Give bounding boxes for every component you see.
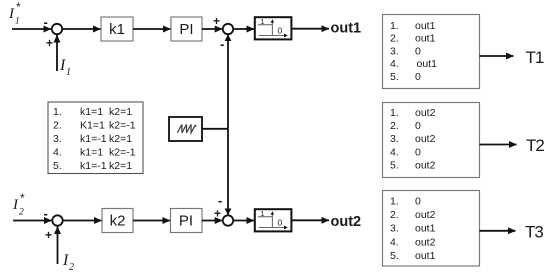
table box T1 — [383, 15, 480, 89]
svg-text:PI: PI — [179, 213, 193, 230]
input label I2 — [62, 252, 74, 273]
wire S1 to k1 — [63, 28, 101, 30]
summing junction S4 — [223, 215, 233, 225]
svg-text:T1: T1 — [526, 48, 544, 67]
svg-text:out1: out1 — [331, 21, 362, 37]
wire CMP1 to out1 — [291, 28, 329, 30]
svg-text:4.: 4. — [390, 58, 399, 70]
summing junction S1 — [52, 24, 62, 34]
wire PI2 to S4 — [202, 220, 222, 222]
gain block k1 — [101, 17, 133, 41]
comparator block CMP1 — [255, 17, 292, 39]
svg-text:I: I — [12, 197, 19, 213]
svg-text:T3: T3 — [525, 223, 543, 242]
node T2 — [526, 136, 544, 155]
svg-text:+: + — [214, 207, 221, 221]
wire carrier to vertical bus — [202, 128, 228, 130]
svg-text:2.: 2. — [53, 119, 62, 131]
svg-text:k1=-1: k1=-1 — [80, 160, 107, 172]
svg-text:-: - — [44, 206, 48, 221]
feedback arrow I2 into S3 — [57, 227, 59, 265]
svg-text:out2: out2 — [415, 133, 436, 145]
svg-text:out1: out1 — [415, 20, 436, 32]
svg-text:1: 1 — [66, 67, 71, 78]
svg-text:0: 0 — [415, 196, 421, 208]
svg-text:1.: 1. — [390, 196, 399, 208]
summing junction S3 — [52, 215, 62, 225]
wire PI1 to S2 — [202, 28, 222, 30]
svg-text:4.: 4. — [390, 146, 399, 158]
svg-text:2.: 2. — [390, 120, 399, 132]
svg-text:k2: k2 — [110, 213, 126, 230]
svg-text:3.: 3. — [53, 133, 62, 145]
svg-text:1.: 1. — [53, 106, 62, 118]
node out1 — [331, 21, 362, 37]
svg-text:k2=1: k2=1 — [109, 106, 132, 118]
svg-text:3.: 3. — [390, 45, 399, 57]
sign plus at S2 — [213, 14, 220, 28]
svg-text:I: I — [62, 252, 69, 269]
svg-text:0: 0 — [415, 120, 421, 132]
PI controller block PI2 — [171, 209, 203, 233]
svg-text:out2: out2 — [331, 214, 362, 230]
sign plus at S3 — [45, 228, 52, 242]
svg-text:*: * — [20, 191, 25, 205]
svg-text:T2: T2 — [526, 136, 544, 155]
svg-text:2.: 2. — [390, 209, 399, 221]
carrier generator block (sawtooth) — [169, 117, 202, 141]
svg-text:5.: 5. — [390, 71, 399, 83]
wire I1* to summing junction S1 — [12, 28, 51, 30]
wire I2* to summing junction S3 — [13, 220, 52, 222]
sign minus at S1 — [44, 15, 48, 30]
svg-text:0: 0 — [415, 71, 421, 83]
svg-text:+: + — [45, 228, 52, 242]
gain block k2 — [102, 209, 133, 233]
svg-text:+: + — [46, 36, 53, 50]
sign minus at S2 — [220, 37, 224, 52]
sign plus at S1 — [46, 36, 53, 50]
svg-text:5.: 5. — [390, 159, 399, 171]
svg-text:3.: 3. — [390, 133, 399, 145]
wire table1 to T1 — [480, 55, 514, 57]
svg-text:out2: out2 — [415, 107, 436, 119]
svg-text:4.: 4. — [53, 146, 62, 158]
svg-text:k1: k1 — [109, 21, 125, 38]
sign minus at S4 — [218, 193, 222, 208]
legend box k1 k2 cases — [48, 102, 143, 174]
svg-text:k2=-1: k2=-1 — [109, 146, 136, 158]
wire k2 to PI2 — [133, 220, 170, 222]
wire k1 to PI1 — [133, 28, 171, 30]
svg-text:out1: out1 — [415, 33, 436, 45]
svg-text:out2: out2 — [415, 159, 436, 171]
node T1 — [526, 48, 544, 67]
svg-text:2: 2 — [19, 208, 24, 218]
svg-text:-: - — [44, 15, 48, 30]
sign minus at S3 — [44, 206, 48, 221]
svg-text:k1=1: k1=1 — [80, 146, 103, 158]
wire table2 to T2 — [480, 144, 517, 146]
svg-text:K1=1: K1=1 — [80, 119, 105, 131]
svg-text:1.: 1. — [390, 107, 399, 119]
svg-text:I: I — [8, 6, 15, 22]
feedback arrow I1 into S1 — [56, 35, 58, 71]
svg-text:PI: PI — [179, 21, 193, 38]
svg-text:k1=-1: k1=-1 — [80, 133, 107, 145]
svg-text:I: I — [59, 57, 66, 74]
svg-text:k2=1: k2=1 — [109, 160, 132, 172]
svg-text:2.: 2. — [390, 33, 399, 45]
svg-text:1: 1 — [15, 17, 20, 27]
input label I1* — [8, 0, 21, 27]
summing junction S2 — [223, 24, 233, 34]
comparator block CMP2 — [255, 209, 292, 231]
svg-text:k2=1: k2=1 — [109, 133, 132, 145]
wire CMP2 to out2 — [291, 219, 329, 221]
svg-text:out2: out2 — [415, 209, 436, 221]
input label I2* — [12, 191, 25, 218]
svg-text:4.: 4. — [390, 236, 399, 248]
svg-text:-: - — [220, 37, 224, 52]
wire S2 to comparator CMP1 — [234, 28, 255, 30]
wire S3 to k2 — [63, 220, 102, 222]
input label I1 — [59, 57, 71, 78]
svg-text:3.: 3. — [390, 223, 399, 235]
table box T3 — [383, 191, 480, 267]
sign plus at S4 — [214, 207, 221, 221]
PI controller block PI1 — [171, 17, 202, 41]
node T3 — [525, 223, 543, 242]
svg-text:out1: out1 — [417, 58, 438, 70]
svg-text:out2: out2 — [415, 236, 436, 248]
svg-text:0: 0 — [278, 26, 283, 36]
svg-text:2: 2 — [69, 262, 74, 273]
svg-text:*: * — [16, 0, 21, 14]
svg-text:0: 0 — [415, 45, 421, 57]
svg-text:out1: out1 — [415, 250, 436, 262]
table box T2 — [383, 103, 480, 178]
svg-text:5.: 5. — [390, 250, 399, 262]
svg-text:k1=1: k1=1 — [80, 106, 103, 118]
svg-text:0: 0 — [415, 146, 421, 158]
node out2 — [331, 214, 362, 230]
wire table3 to T3 — [480, 230, 516, 232]
wire S4 to comparator CMP2 — [234, 220, 255, 222]
svg-text:5.: 5. — [53, 160, 62, 172]
svg-text:0: 0 — [278, 218, 283, 228]
carrier vertical bus with arrows into S2 and S4 — [225, 34, 232, 215]
svg-text:out1: out1 — [415, 223, 436, 235]
svg-text:k2=-1: k2=-1 — [109, 119, 136, 131]
svg-text:+: + — [213, 14, 220, 28]
svg-text:1.: 1. — [390, 20, 399, 32]
